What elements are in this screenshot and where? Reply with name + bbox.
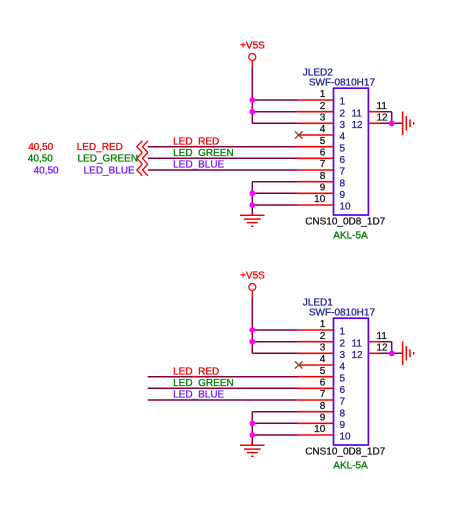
svg-text:12: 12 [352,120,364,131]
svg-text:4: 4 [320,124,326,135]
svg-text:40,50: 40,50 [28,142,53,153]
svg-text:3: 3 [320,343,326,354]
svg-text:10: 10 [340,432,352,443]
svg-text:LED_GREEN: LED_GREEN [78,154,139,165]
svg-text:4: 4 [340,132,346,143]
svg-text:2: 2 [320,331,326,342]
svg-text:3: 3 [340,120,346,131]
svg-text:+V5S: +V5S [240,271,265,282]
svg-text:11: 11 [352,338,363,349]
svg-text:LED_BLUE: LED_BLUE [173,390,224,401]
svg-text:LED_RED: LED_RED [173,136,219,147]
svg-text:5: 5 [320,136,326,147]
svg-text:40,50: 40,50 [28,154,53,165]
svg-text:SWF-0810H17: SWF-0810H17 [309,308,376,319]
svg-text:LED_RED: LED_RED [77,142,123,153]
svg-text:8: 8 [340,408,346,419]
svg-text:10: 10 [340,202,352,213]
svg-text:5: 5 [340,373,346,384]
svg-text:LED_BLUE: LED_BLUE [173,160,224,171]
svg-text:3: 3 [320,113,326,124]
svg-text:11: 11 [352,108,363,119]
svg-text:+V5S: +V5S [240,41,265,52]
svg-text:12: 12 [377,343,389,354]
svg-text:1: 1 [320,319,326,330]
svg-text:8: 8 [340,178,346,189]
svg-text:LED_GREEN: LED_GREEN [173,378,234,389]
svg-text:LED_BLUE: LED_BLUE [84,165,135,176]
svg-text:12: 12 [352,350,364,361]
svg-text:1: 1 [340,327,346,338]
svg-text:4: 4 [320,354,326,365]
svg-text:7: 7 [340,397,346,408]
svg-text:11: 11 [377,101,388,112]
svg-text:6: 6 [340,155,346,166]
svg-text:7: 7 [320,159,326,170]
svg-text:6: 6 [340,385,346,396]
svg-text:9: 9 [320,183,326,194]
svg-text:SWF-0810H17: SWF-0810H17 [309,78,376,89]
svg-text:10: 10 [314,194,326,205]
svg-text:3: 3 [340,350,346,361]
svg-text:11: 11 [377,331,388,342]
svg-text:CNS10_0D8_1D7: CNS10_0D8_1D7 [305,216,385,227]
svg-text:2: 2 [340,108,346,119]
svg-text:9: 9 [340,420,346,431]
svg-text:CNS10_0D8_1D7: CNS10_0D8_1D7 [305,446,385,457]
svg-text:8: 8 [320,171,326,182]
svg-text:5: 5 [320,366,326,377]
svg-text:6: 6 [320,148,326,159]
svg-text:9: 9 [340,190,346,201]
svg-text:5: 5 [340,143,346,154]
svg-text:1: 1 [320,89,326,100]
svg-text:12: 12 [377,113,389,124]
svg-text:6: 6 [320,378,326,389]
svg-text:2: 2 [340,338,346,349]
svg-text:7: 7 [340,167,346,178]
svg-text:LED_RED: LED_RED [173,366,219,377]
svg-text:AKL-5A: AKL-5A [333,230,368,241]
svg-text:40,50: 40,50 [34,165,59,176]
svg-text:9: 9 [320,413,326,424]
svg-text:LED_GREEN: LED_GREEN [173,148,234,159]
svg-text:8: 8 [320,401,326,412]
svg-text:1: 1 [340,97,346,108]
svg-text:10: 10 [314,424,326,435]
svg-text:7: 7 [320,389,326,400]
svg-text:4: 4 [340,362,346,373]
svg-text:AKL-5A: AKL-5A [333,460,368,471]
svg-text:2: 2 [320,101,326,112]
